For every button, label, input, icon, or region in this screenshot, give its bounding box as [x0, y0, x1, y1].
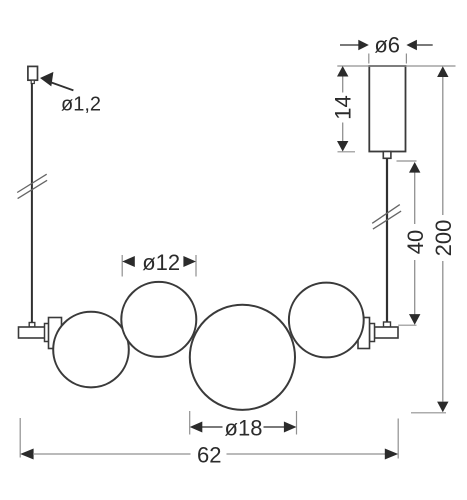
ø12 extension tick right	[195, 255, 197, 277]
glass sphere 2	[121, 282, 196, 357]
svg-text:ø18: ø18	[225, 415, 263, 440]
dimension ø18 arrow left	[190, 422, 203, 433]
dimension ø12 arrow right	[183, 256, 196, 267]
dimension ø18 line left	[202, 426, 223, 428]
glass sphere 3 (large)	[190, 305, 295, 410]
left bracket	[49, 318, 62, 349]
extension line 40 top	[397, 160, 417, 162]
dimension ø6 line right	[417, 44, 433, 46]
dimension 200 vertical line	[442, 77, 444, 215]
dimension 200 arrow down	[437, 402, 448, 413]
svg-text:62: 62	[197, 442, 221, 467]
ceiling mount box	[28, 66, 38, 80]
left bar nub	[29, 323, 35, 328]
svg-text:ø6: ø6	[374, 33, 400, 58]
svg-text:14: 14	[331, 95, 356, 119]
left collar	[45, 324, 50, 342]
dimension ø6 line left	[340, 44, 359, 46]
extension line at 200 bottom	[411, 412, 446, 414]
62 extension line right	[397, 419, 399, 459]
dimension ø6 arrow left (points right)	[358, 40, 369, 50]
ø12 extension tick left	[121, 255, 123, 277]
dimension 40 vertical line	[414, 173, 416, 225]
ø18 extension tick right	[296, 411, 298, 435]
right collar	[370, 324, 375, 342]
dimension ø18 line right	[264, 426, 285, 428]
dimension ø18 arrow right	[284, 422, 297, 433]
ø6 extension ticks	[368, 54, 370, 64]
ceiling mount nub	[31, 80, 34, 83]
dimension 62 arrow left	[20, 449, 33, 460]
svg-text:ø1,2: ø1,2	[61, 94, 101, 116]
svg-text:200: 200	[431, 220, 456, 257]
ø18 extension tick left	[189, 411, 191, 435]
dimension 62 arrow right	[385, 449, 398, 460]
dimension ø6 arrow right (points left)	[406, 40, 417, 50]
right suspension wire	[386, 158, 388, 322]
right bar nub	[384, 322, 391, 327]
canopy cylinder	[369, 66, 405, 152]
62 extension line left	[19, 418, 21, 458]
left wire break mark	[17, 174, 47, 192]
dimension ø12 arrow left	[122, 256, 135, 267]
dimension 200 arrow up	[437, 66, 448, 77]
dimension 62 line left	[33, 453, 191, 455]
top extension line at canopy top	[337, 65, 455, 67]
dimension 40 arrow up	[409, 162, 420, 173]
dimension 14 arrow down	[337, 141, 348, 152]
extension line at canopy bottom left	[338, 151, 356, 153]
dimension 62 line right	[227, 453, 386, 455]
right wire break mark	[372, 205, 400, 224]
right bracket	[358, 318, 370, 349]
svg-text:ø12: ø12	[142, 250, 180, 275]
left bar end	[19, 327, 46, 338]
leader arrow for cable diameter	[40, 72, 53, 87]
extension line 40 bottom	[398, 324, 416, 326]
right bar end	[375, 327, 399, 338]
dimension 14 arrow up	[337, 66, 348, 77]
dimension 14 vertical line	[342, 77, 344, 93]
svg-text:40: 40	[403, 230, 428, 254]
canopy nub	[383, 152, 391, 159]
glass sphere 1	[53, 312, 129, 388]
glass sphere 4	[289, 283, 364, 358]
left suspension wire	[31, 84, 33, 323]
dimension 40 arrow down	[409, 314, 420, 325]
